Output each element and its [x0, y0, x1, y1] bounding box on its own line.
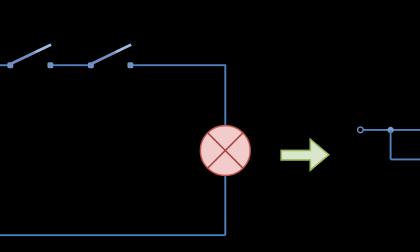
switch S1 blade — [12, 45, 51, 64]
switch S1 left terminal dot — [7, 62, 13, 68]
switch S2 left terminal dot — [88, 62, 94, 68]
wire: left feed into switch S1 — [0, 64, 10, 66]
junction dot — [388, 127, 394, 133]
switch S2 blade — [92, 45, 131, 64]
lamp L1 — [200, 126, 250, 176]
wire: terminal to junction — [363, 129, 390, 131]
open terminal node — [358, 127, 364, 133]
wire: lower branch to right edge — [391, 158, 420, 160]
arrow: equivalence indicator — [281, 139, 329, 170]
wire: junction to right edge — [391, 129, 420, 131]
wire: S2 to top-right corner, down through lamp — [133, 65, 225, 235]
wire: bottom return — [0, 234, 225, 236]
switch S2 right terminal dot — [127, 62, 133, 68]
wire: between S1 and S2 — [53, 64, 88, 66]
switch S1 right terminal dot — [47, 62, 53, 68]
wire: junction down — [390, 130, 392, 159]
